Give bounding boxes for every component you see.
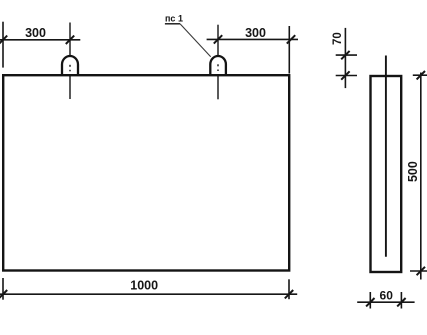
center line loop left bbox=[69, 23, 71, 100]
svg-text:60: 60 bbox=[380, 288, 394, 302]
dimension 1000: tick marks bbox=[0, 290, 293, 298]
dimension 300 right: line bbox=[207, 26, 298, 74]
leader line PS1 bbox=[180, 24, 211, 57]
svg-text:1000: 1000 bbox=[130, 278, 158, 292]
lifting loop PS1 left bbox=[62, 56, 78, 75]
svg-text:70: 70 bbox=[332, 32, 344, 45]
svg-text:300: 300 bbox=[245, 26, 266, 40]
loop bar in side view bbox=[385, 56, 387, 257]
panel side view outline bbox=[371, 76, 402, 272]
dimension 500: line bbox=[410, 73, 427, 280]
center line loop right bbox=[217, 25, 219, 100]
dimension 300 left: line bbox=[0, 22, 80, 68]
dimension 500: tick marks bbox=[417, 71, 425, 275]
panel front view outline bbox=[3, 75, 289, 270]
svg-text:пс 1: пс 1 bbox=[165, 14, 183, 24]
label PS1 bbox=[165, 14, 183, 24]
dimension 300 left: tick marks bbox=[0, 36, 74, 44]
dimension 300 right: tick marks bbox=[214, 35, 295, 43]
dimension 60: tick marks bbox=[366, 298, 406, 306]
lifting loop PS1 right bbox=[210, 56, 226, 75]
dimension 70: tick marks bbox=[341, 51, 349, 80]
svg-text:300: 300 bbox=[25, 26, 46, 40]
svg-text:500: 500 bbox=[406, 161, 420, 182]
dimension 70: line bbox=[336, 28, 357, 88]
dimension 60: line bbox=[357, 292, 414, 309]
dimension 1000: line bbox=[0, 278, 297, 300]
